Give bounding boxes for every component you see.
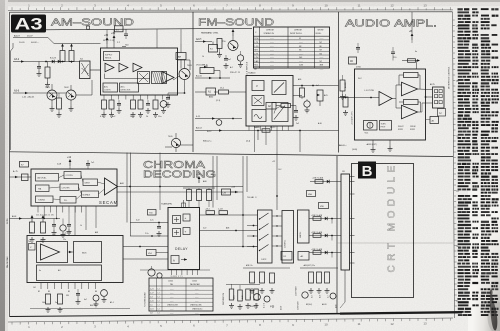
label A-75	[13, 170, 19, 173]
svg-text:22u: 22u	[63, 239, 66, 241]
svg-text:——: ——	[270, 46, 274, 48]
labels mid row	[28, 225, 98, 243]
capacitor C120	[166, 93, 171, 107]
svg-text:4x: 4x	[39, 270, 41, 272]
label 2700	[356, 67, 362, 69]
IF transformer T101	[80, 59, 91, 79]
svg-text:STEREO IN: STEREO IN	[264, 33, 275, 35]
svg-text:C-61: C-61	[150, 309, 154, 311]
electrolytic C412	[93, 295, 99, 307]
wire U201 pins bottom	[249, 126, 288, 152]
labels fm misc	[202, 56, 322, 125]
svg-text:——: ——	[170, 309, 174, 311]
capacitor C116	[146, 100, 151, 113]
svg-text:10u: 10u	[158, 116, 161, 118]
svg-text:A1-10: A1-10	[196, 75, 203, 78]
wire base row low	[76, 80, 92, 95]
title AUDIO AMPL.	[345, 18, 437, 30]
svg-text:+0.2 (2): +0.2 (2)	[64, 233, 71, 235]
svg-text:——: ——	[270, 57, 274, 59]
transistor Q203	[168, 133, 181, 148]
svg-text:——: ——	[195, 300, 199, 302]
transistor Q201	[228, 29, 238, 51]
svg-text:PIN–47 21: PIN–47 21	[230, 72, 241, 74]
svg-text:——: ——	[270, 68, 274, 70]
svg-text:C-41: C-41	[150, 300, 154, 302]
svg-text:BR(7n2): BR(7n2)	[306, 304, 312, 306]
svg-text:AND: AND	[209, 96, 214, 99]
svg-text:A3-6: A3-6	[14, 90, 20, 93]
pin labels U402	[38, 291, 97, 293]
svg-text:IN KILL: IN KILL	[316, 33, 322, 35]
svg-text:——: ——	[320, 38, 324, 40]
resistor R411	[58, 294, 63, 312]
wire Q203 links	[165, 145, 193, 152]
svg-text:——: ——	[195, 296, 199, 298]
svg-text:A-2: A-2	[230, 66, 233, 69]
svg-text:VD4: VD4	[148, 253, 152, 255]
svg-text:4n7: 4n7	[228, 59, 231, 61]
power feed IC U101	[104, 32, 129, 48]
capacitor C305	[356, 43, 360, 53]
resistor R406	[41, 215, 46, 242]
svg-text:CRT MODULE: CRT MODULE	[387, 164, 398, 273]
svg-text:SPKR: SPKR	[398, 129, 404, 131]
svg-text:(EXT): (EXT)	[270, 306, 275, 308]
box K2 small	[298, 252, 309, 261]
svg-text:DRUM: DRUM	[410, 126, 416, 128]
svg-text:11: 11	[357, 322, 360, 326]
svg-text:1k: 1k	[146, 116, 148, 118]
svg-text:11: 11	[357, 4, 360, 8]
svg-text:DETECTOR: DETECTOR	[121, 90, 132, 92]
svg-text:+C8-1: +C8-1	[205, 209, 210, 211]
svg-text:+A1B1 (EXT): +A1B1 (EXT)	[366, 143, 377, 146]
box MR6	[314, 225, 323, 231]
svg-text:E-123: E-123	[50, 58, 57, 60]
resistor R507	[218, 209, 228, 215]
transistor Q103	[179, 60, 192, 80]
resistor R522	[238, 285, 245, 309]
svg-text:4u7: 4u7	[84, 299, 87, 301]
IC U301 audio power amplifier	[355, 69, 426, 140]
label BAND	[254, 126, 276, 132]
capacitor C101	[37, 62, 42, 77]
section divider AM/FM vertical	[192, 12, 194, 152]
labels rgb rotated	[312, 295, 330, 298]
svg-text:——: ——	[270, 65, 274, 67]
svg-text:MATRIX: MATRIX	[299, 231, 302, 238]
output channel G network	[309, 231, 341, 241]
wire delay in1	[130, 220, 168, 224]
svg-text:——: ——	[170, 296, 174, 298]
labels below U402	[33, 287, 114, 307]
title DECODING	[143, 169, 216, 181]
svg-text:A3-12: A3-12	[196, 127, 203, 130]
box A1 interface	[206, 88, 216, 99]
svg-text:(2-1): (2-1)	[216, 100, 221, 102]
label CRT MODULE vertical	[387, 164, 398, 273]
box A2 interface	[266, 103, 281, 110]
wire drops to divider	[258, 131, 300, 153]
node A3-12 wire	[195, 127, 339, 134]
svg-text:B2: B2	[38, 291, 40, 293]
wire rgb junctions	[247, 225, 258, 248]
symbol H box	[438, 109, 446, 117]
wire bottom rail left	[30, 308, 130, 310]
IC U402 chroma processor	[27, 236, 123, 283]
resistor R115	[138, 100, 143, 117]
label vert EXT INT	[352, 111, 354, 125]
wire U101 out to Q103	[173, 60, 190, 80]
svg-text:2700: 2700	[356, 67, 362, 69]
svg-text:4N8: 4N8	[320, 65, 323, 67]
svg-text:CONTRL: CONTRL	[66, 175, 73, 177]
svg-text:B: B	[362, 163, 373, 180]
wire AM input row	[60, 61, 80, 63]
resistor R503	[207, 188, 212, 207]
resistor R103	[60, 44, 65, 62]
wire chroma out1	[123, 246, 168, 248]
svg-text:N7: N7	[320, 50, 322, 52]
svg-text:2.2u: 2.2u	[150, 220, 154, 222]
svg-text:C-17: C-17	[150, 292, 154, 294]
svg-text:7u5: 7u5	[91, 162, 94, 164]
resistor R211	[281, 104, 296, 108]
svg-text:2n2: 2n2	[55, 302, 58, 304]
svg-text:100n: 100n	[42, 302, 46, 304]
wire emitter rail	[47, 93, 74, 111]
svg-text:SPLIT 2.17: SPLIT 2.17	[103, 40, 115, 42]
svg-text:——: ——	[320, 57, 324, 59]
resistor R502	[197, 188, 202, 207]
output channel B network	[309, 248, 341, 258]
svg-text:2.2u: 2.2u	[145, 233, 149, 235]
electrolytic C506	[148, 266, 155, 276]
svg-text:1-N3: 1-N3	[299, 65, 303, 67]
svg-text:——: ——	[170, 288, 174, 290]
pin numbers delay	[171, 276, 183, 278]
svg-text:——: ——	[170, 313, 174, 315]
svg-text:——: ——	[170, 300, 174, 302]
svg-text:B-LT: B-LT	[312, 295, 314, 298]
svg-text:C-123: C-123	[218, 209, 223, 211]
label K-01 04-07	[14, 35, 33, 38]
resistor R111	[102, 100, 107, 117]
box VD4	[147, 250, 169, 256]
svg-text:1.2: 1.2	[158, 309, 160, 311]
power rail chroma x277	[272, 152, 282, 210]
svg-text:CATCH ALL: CATCH ALL	[37, 177, 47, 180]
svg-text:C-3: C-3	[150, 296, 153, 298]
svg-text:SE-1: SE-1	[254, 65, 258, 67]
svg-text:N.C: N.C	[358, 78, 362, 80]
svg-text:VR6: VR6	[320, 206, 324, 208]
svg-text:AR: AR	[178, 56, 181, 59]
svg-text:B40-12: B40-12	[250, 306, 255, 308]
inductor L201	[209, 42, 218, 53]
resistor R412	[46, 294, 51, 312]
table sound-kill settings	[254, 27, 330, 70]
resistor R524	[254, 289, 259, 308]
schematic frame step below A3	[13, 38, 101, 44]
component box on border	[115, 26, 124, 32]
svg-text:V: V	[256, 84, 258, 88]
svg-text:DECODING: DECODING	[143, 169, 216, 181]
svg-text:86: 86	[320, 46, 322, 48]
resistor R112	[109, 100, 114, 117]
rotated label PAL SECAM	[6, 256, 9, 268]
svg-text:AUDIO AMPL.: AUDIO AMPL.	[345, 18, 437, 30]
wire below delay rail	[140, 269, 210, 271]
wire top rail AM	[180, 44, 182, 69]
inductor L102 box	[176, 53, 186, 60]
capacitor C503	[157, 223, 162, 237]
svg-text:PAL/SECAM: PAL/SECAM	[190, 283, 200, 286]
svg-text:PAL: PAL	[170, 283, 173, 286]
svg-text:——: ——	[270, 53, 274, 55]
wire switchbank to control	[272, 215, 282, 246]
svg-text:REGUL: REGUL	[105, 58, 112, 60]
wire SECAM pins bottom	[38, 206, 81, 213]
svg-text:G-2: G-2	[328, 295, 330, 298]
box A1 right	[426, 117, 439, 124]
sheet label A3 box	[11, 15, 46, 34]
label 790 +0.2	[29, 233, 71, 235]
wire secam left in	[10, 174, 32, 178]
svg-text:——: ——	[270, 42, 274, 44]
svg-text:H: H	[440, 111, 442, 115]
resistor R521	[229, 284, 236, 308]
svg-text:1k: 1k	[202, 56, 204, 58]
label box MR1	[342, 197, 350, 203]
svg-text:VOL: VOL	[365, 133, 369, 135]
label V+L-E SERVICE	[247, 61, 249, 76]
svg-text:IDENT: IDENT	[85, 183, 91, 185]
svg-text:PAL/SECAM: PAL/SECAM	[6, 256, 9, 268]
label PASSBAND CHNL	[201, 32, 219, 35]
table chassis line options	[149, 278, 213, 315]
label 10-01 04-02	[19, 42, 40, 44]
box VA6	[307, 191, 316, 197]
electrolytic C202	[237, 51, 243, 67]
box input left	[22, 174, 29, 181]
inductor L2B	[222, 187, 239, 196]
svg-text:N7: N7	[320, 61, 322, 63]
label TDA above delay	[161, 203, 172, 206]
electrolytic C411	[101, 289, 108, 302]
svg-text:——: ——	[299, 68, 303, 70]
wire audio input	[339, 97, 355, 99]
resistor R210	[300, 86, 305, 100]
resistor R506	[205, 209, 215, 216]
label AB-09	[339, 144, 357, 151]
diode D101 pair	[46, 58, 60, 64]
resistor R108	[57, 93, 62, 117]
capacitor C407	[52, 219, 57, 236]
label box VR6	[319, 203, 329, 209]
svg-text:51: 51	[299, 38, 301, 40]
wire secam out2	[117, 191, 243, 193]
svg-text:——: ——	[299, 42, 303, 44]
svg-text:A2–1: A2–1	[110, 301, 114, 304]
svg-text:C-8: C-8	[150, 313, 153, 315]
wire connector bottom drop	[340, 270, 345, 308]
wire chroma pins bottom	[41, 283, 95, 290]
svg-text:10: 10	[324, 4, 328, 8]
svg-text:2n2: 2n2	[296, 123, 299, 125]
parts list columns right margin	[458, 8, 500, 316]
svg-text:B5: B5	[68, 291, 70, 293]
svg-text:WONT IN KILL: WONT IN KILL	[290, 33, 302, 35]
vertical bus x160	[159, 153, 161, 211]
svg-text:12345: 12345	[192, 281, 197, 283]
section divider FM/AUDIO vertical	[338, 12, 340, 153]
rotated label CONTRAST	[295, 285, 298, 296]
svg-text:1k2: 1k2	[33, 287, 36, 289]
wire amp to connector	[418, 89, 433, 112]
svg-text:AM–SOUND: AM–SOUND	[51, 17, 135, 29]
IC U501 luminance delay line	[168, 208, 200, 270]
label 2-1	[216, 100, 221, 102]
svg-text:——: ——	[270, 50, 274, 52]
svg-text:1.2: 1.2	[158, 305, 160, 307]
svg-text:CONTR: CONTR	[104, 90, 111, 92]
wire into delay top	[182, 200, 186, 208]
svg-text:KLMPALS: KLMPALS	[83, 194, 92, 197]
small mark on border	[87, 26, 90, 29]
capacitor C203	[224, 55, 229, 68]
svg-text:A08: A08	[203, 180, 206, 183]
svg-text:TURN: TURN	[381, 124, 387, 126]
svg-text:10-01: 10-01	[19, 42, 25, 44]
svg-text:+30: +30	[104, 34, 109, 37]
labels bottom rotated cluster	[257, 301, 338, 310]
svg-text:100n: 100n	[130, 116, 134, 118]
svg-text:13: 13	[423, 4, 427, 8]
resistor R523	[246, 289, 253, 308]
ruler right edge	[453, 12, 460, 318]
ruler top edge	[8, 4, 453, 11]
svg-text:SPKR: SPKR	[410, 129, 416, 131]
svg-text:DELAY: DELAY	[175, 247, 188, 251]
capacitor C409	[67, 213, 72, 235]
resistor R201	[217, 39, 226, 58]
svg-text:——: ——	[195, 288, 199, 290]
power rail audio	[391, 12, 420, 69]
svg-text:B3: B3	[48, 291, 50, 293]
svg-text:N7: N7	[320, 42, 322, 44]
svg-text:PLL: PLL	[64, 200, 67, 202]
IC U401 SECAM decoder	[31, 169, 118, 206]
svg-text:1.2: 1.2	[158, 313, 160, 315]
svg-text:RIGHT: RIGHT	[398, 126, 404, 128]
transistor Q101	[45, 84, 57, 100]
svg-text:——: ——	[195, 313, 199, 315]
svg-text:A36: A36	[298, 78, 301, 81]
wire delay in2	[130, 233, 168, 237]
potentiometer VOLUME-L	[196, 65, 220, 74]
svg-text:B40-12 =: B40-12 =	[203, 141, 212, 143]
svg-text:1k: 1k	[80, 225, 82, 227]
label B40-12	[203, 141, 251, 143]
svg-text:1.2: 1.2	[158, 288, 160, 290]
section border AM FM top	[46, 28, 252, 30]
vertical bus x213	[213, 156, 217, 215]
svg-text:A3-2: A3-2	[14, 58, 20, 61]
svg-text:N5: N5	[320, 53, 322, 55]
node A2-H input	[195, 38, 212, 43]
svg-text:——: ——	[320, 68, 324, 70]
wire chroma out2	[123, 258, 168, 260]
labels SECAM pins	[36, 215, 54, 217]
resistor R101	[45, 62, 50, 88]
svg-text:——: ——	[299, 61, 303, 63]
svg-text:C-5: C-5	[150, 305, 153, 307]
svg-text:330: 330	[66, 295, 69, 297]
svg-text:4.7k: 4.7k	[100, 116, 104, 118]
title AM-SOUND	[51, 17, 135, 29]
svg-text:A2-H: A2-H	[196, 38, 202, 41]
connector H audio out	[430, 83, 444, 108]
pot volume R215	[317, 90, 328, 106]
svg-text:WONT: WONT	[318, 30, 325, 32]
resistor R302	[343, 94, 348, 115]
title FM-SOUND	[198, 17, 275, 29]
svg-text:1.2: 1.2	[158, 300, 160, 302]
wire delay out1	[200, 214, 258, 216]
rotated label 71 SCH MODULE	[145, 292, 147, 307]
wire volume to IC	[195, 71, 221, 93]
resistor R104	[69, 44, 74, 64]
box K7 top	[20, 162, 29, 168]
svg-text:CONTROL: CONTROL	[285, 240, 287, 248]
svg-text:04-07: 04-07	[27, 36, 33, 38]
electrolytic C212	[304, 99, 310, 113]
svg-text:1/8: 1/8	[342, 171, 345, 173]
wire amp bottom grounds	[366, 140, 393, 152]
svg-text:12345: 12345	[168, 281, 173, 283]
electrolytic C507	[157, 273, 162, 278]
wire T101 to IC	[90, 69, 100, 71]
sheet label B box	[358, 162, 376, 181]
svg-text:+30: +30	[111, 32, 116, 35]
svg-text:CHROM: CHROM	[266, 30, 274, 32]
svg-text:Y30: Y30	[149, 213, 152, 215]
rotated label SATURATION	[222, 292, 225, 305]
svg-text:——: ——	[270, 38, 274, 40]
connector X602 strip	[341, 171, 355, 270]
wire delay out3	[200, 246, 258, 248]
wire mid row	[10, 215, 61, 220]
resistor R114	[131, 100, 136, 117]
wire from secam to delay drop	[242, 246, 244, 248]
svg-text:+12: +12	[272, 161, 275, 163]
resistor R117	[153, 100, 158, 117]
svg-text:700 AD 3: 700 AD 3	[247, 196, 257, 199]
node A3-2 input wire	[13, 58, 47, 63]
label SECAM	[99, 200, 118, 205]
resistor R501	[187, 188, 192, 207]
svg-text:+B: +B	[409, 30, 412, 33]
svg-text:SECAM: SECAM	[99, 200, 118, 205]
wire secam pin drop 1	[44, 213, 45, 220]
svg-text:13: 13	[423, 322, 427, 326]
svg-text:TDA420: TDA420	[248, 72, 256, 75]
box A5 coupler	[349, 57, 357, 64]
title CHROMA	[143, 159, 205, 171]
svg-text:SATURATION: SATURATION	[222, 292, 225, 305]
